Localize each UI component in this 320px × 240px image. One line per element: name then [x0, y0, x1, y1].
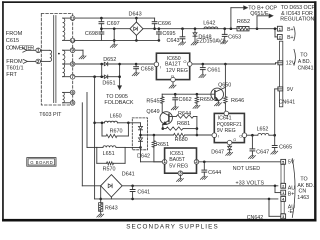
wire pin 10 rail [75, 39, 160, 42]
inductor L651 / resistor R570 loop [97, 146, 125, 173]
svg-text:SECONDARY SUPPLIES: SECONDARY SUPPLIES [126, 223, 218, 230]
svg-text:C641: C641 [137, 190, 150, 196]
connector CN642 pin 5 5V [281, 159, 295, 165]
svg-text:8: 8 [71, 61, 74, 66]
wire 9V output [247, 134, 276, 137]
svg-text:C615: C615 [6, 38, 19, 44]
svg-text:Q649: Q649 [146, 109, 159, 115]
connector pin 2 B+ [277, 35, 293, 42]
wire Q650 base feed [162, 93, 215, 96]
label TO D905 FOLDBACK [104, 94, 133, 106]
capacitor C698 [85, 29, 104, 41]
secondary winding pins 6-5 [63, 92, 71, 102]
pin 11 [70, 16, 75, 21]
input arrow from T601/1 [23, 60, 36, 64]
pin 10 [70, 38, 75, 43]
svg-text:C697: C697 [107, 21, 120, 27]
transformer primary pin 2 [36, 59, 41, 64]
wire pin 5 vertical feed [82, 103, 100, 186]
svg-text:R652: R652 [237, 19, 250, 25]
svg-text:1: 1 [163, 159, 166, 164]
svg-text:R680: R680 [175, 137, 188, 143]
capacitor C696 [152, 18, 171, 30]
svg-text:2: 2 [37, 59, 40, 64]
svg-text:G BOARD: G BOARD [30, 160, 53, 165]
svg-text:5: 5 [71, 100, 74, 105]
svg-text:R650: R650 [200, 97, 213, 103]
wire D641 bottom corner down [110, 197, 112, 199]
svg-text:IC651: IC651 [170, 151, 184, 157]
label TO A BD. CN841 [298, 53, 314, 72]
bracket for B+ pins [294, 27, 295, 41]
diode D652 [103, 57, 116, 65]
svg-text:D652: D652 [103, 57, 116, 63]
svg-text:C662: C662 [179, 97, 192, 103]
voltage regulator IC651 BA05T [162, 148, 199, 176]
capacitor C662 [171, 94, 191, 110]
svg-text:C665: C665 [279, 145, 292, 151]
wire D652 to IC650 input [108, 63, 154, 65]
resistor R643 [97, 199, 118, 217]
capacitor C653 [221, 27, 241, 43]
svg-text:D643: D643 [129, 11, 142, 17]
bracket TO A BD. [294, 49, 295, 65]
secondary winding pins 11-10 [63, 18, 71, 40]
svg-text:IC641: IC641 [218, 115, 232, 121]
svg-text:1: 1 [282, 191, 284, 195]
svg-text:I: I [218, 133, 219, 138]
svg-text:FRT: FRT [6, 72, 17, 78]
wire R644 to R680 junction [196, 117, 199, 137]
svg-text:2: 2 [282, 184, 284, 188]
wire pin 7 vertical feed [93, 77, 96, 199]
svg-text:L651: L651 [103, 151, 115, 157]
svg-text:D642: D642 [137, 153, 150, 159]
transformer T603 dashed outline [41, 14, 72, 106]
winding polarity dot [58, 53, 60, 55]
svg-text:REGULATION: REGULATION [280, 17, 314, 23]
svg-text:B+: B+ [287, 27, 294, 33]
svg-text:9V REG: 9V REG [217, 128, 236, 134]
wire 5V rail [199, 161, 281, 164]
CN641 pin 9V [278, 87, 294, 93]
diode pair D642 [132, 118, 150, 162]
capacitor C641 [130, 186, 150, 199]
svg-text:T601/1: T601/1 [6, 66, 23, 72]
svg-text:R570: R570 [103, 166, 116, 172]
svg-text:CN642: CN642 [247, 215, 264, 221]
transistor Q649 [146, 109, 176, 129]
svg-text:3: 3 [179, 171, 182, 176]
resistor R680 and 9V input wire [141, 133, 213, 143]
svg-text:R651: R651 [156, 142, 169, 148]
svg-text:Q651/E: Q651/E [250, 11, 269, 17]
title SECONDARY SUPPLIES [126, 223, 218, 230]
connector pin 1 B+ [277, 26, 293, 33]
resistor R545 [146, 94, 164, 112]
svg-text:CN: CN [299, 189, 307, 195]
svg-text:5: 5 [282, 160, 284, 164]
svg-text:L650: L650 [110, 114, 122, 120]
wire D651 junction [101, 64, 103, 77]
svg-text:3: 3 [282, 215, 284, 219]
svg-text:FROM: FROM [6, 31, 23, 37]
svg-text:T603 PIT: T603 PIT [39, 112, 62, 118]
connector CN642 pin 2 [281, 183, 295, 197]
wire pin 11 rail [75, 17, 155, 20]
svg-text:1463: 1463 [297, 195, 309, 201]
capacitor C643 [166, 27, 185, 45]
svg-text:D651: D651 [102, 80, 115, 86]
svg-text:AU: AU [288, 185, 296, 191]
svg-text:7: 7 [71, 74, 74, 79]
svg-text:PQ09RF21: PQ09RF21 [217, 122, 242, 128]
svg-text:R670: R670 [110, 128, 123, 134]
voltage regulator IC641 PQ09RF21 [212, 111, 247, 145]
svg-text:B+: B+ [287, 35, 294, 41]
svg-text:FROM: FROM [6, 59, 23, 65]
diode D651 [102, 75, 115, 86]
resistor R681 [162, 121, 197, 130]
G BOARD label box [27, 158, 56, 167]
svg-text:9: 9 [71, 48, 74, 53]
ground at pin-10 rail [110, 29, 117, 48]
svg-text:C695: C695 [162, 31, 175, 37]
svg-text:C661: C661 [207, 67, 220, 73]
bracket CN642 [292, 159, 295, 218]
svg-text:R681: R681 [177, 121, 190, 127]
transformer primary pin 1 [36, 48, 41, 53]
wire pin 6 vertical feed [87, 92, 97, 147]
svg-text:2: 2 [279, 36, 281, 40]
wire mid rail D643 to R652 [143, 28, 237, 30]
svg-text:TO: TO [300, 177, 307, 183]
wire mid rail from C697 to D643 [100, 27, 130, 30]
wire +33V rail [122, 185, 278, 188]
label FROM T601/1 FRT [6, 59, 23, 78]
svg-text:I: I [160, 64, 161, 69]
CN641 pin 12V [278, 61, 296, 67]
wire mid rail to B+ pins [249, 27, 277, 37]
connector CN642 pin 1 [275, 186, 286, 195]
svg-text:12V REG: 12V REG [166, 68, 188, 74]
transformer primary winding [41, 50, 52, 61]
label +33 VOLTS [236, 180, 265, 186]
svg-text:CN841: CN841 [298, 65, 314, 71]
svg-text:B+: B+ [288, 192, 295, 198]
diode bridge D643 [129, 11, 144, 40]
svg-text:FOLDBACK: FOLDBACK [104, 100, 133, 106]
capacitor C661 [199, 64, 221, 78]
pin 9 [70, 48, 75, 53]
svg-text:D641: D641 [122, 172, 135, 178]
label NOT USED [233, 166, 260, 172]
connector CN641 body [279, 41, 282, 107]
svg-text:TO: TO [300, 53, 307, 59]
svg-text:11: 11 [71, 17, 75, 21]
capacitor C697 [99, 18, 120, 29]
wire bottom return rail [95, 198, 278, 201]
svg-text:C647: C647 [256, 150, 269, 156]
label FROM C615 CONVERTER [6, 31, 35, 52]
svg-text:NOT USED: NOT USED [233, 166, 260, 172]
voltage regulator IC650 BA12T [154, 53, 192, 82]
wire L651 to D642 [125, 146, 142, 149]
wire D641 left corner down [99, 186, 102, 200]
connector CN642 body [281, 164, 284, 213]
svg-text:O: O [183, 59, 186, 64]
svg-text:D647: D647 [211, 149, 224, 155]
svg-text:BA12T: BA12T [165, 62, 182, 68]
svg-text:2: 2 [195, 159, 198, 164]
svg-text:1: 1 [279, 27, 281, 31]
svg-text:L652: L652 [257, 127, 269, 133]
svg-text:C643: C643 [166, 38, 179, 44]
svg-text:R646: R646 [231, 98, 244, 104]
pin 6 [70, 90, 75, 95]
wire to foldback arrow [108, 63, 122, 89]
svg-text:R643: R643 [105, 206, 118, 212]
resistor R644 [176, 111, 197, 118]
inductor L652 [257, 127, 269, 136]
connector CN642 pin 4 [281, 197, 295, 215]
svg-text:BA05T: BA05T [169, 157, 186, 163]
ground at pin 9 [75, 50, 86, 59]
svg-text:C644: C644 [208, 170, 221, 176]
resistor R650 [193, 94, 213, 108]
capacitor C644 [200, 162, 221, 180]
svg-text:Q650: Q650 [218, 82, 231, 88]
pin 8 [70, 61, 75, 66]
svg-text:5V REG: 5V REG [169, 163, 188, 169]
svg-text:10: 10 [71, 39, 75, 43]
label TO D653 OCP & IC643 FOR REGULATION [280, 5, 315, 23]
svg-text:5V: 5V [288, 160, 295, 166]
svg-text:A BD.: A BD. [298, 59, 311, 65]
ground Q650 emitter [215, 101, 222, 106]
arrow TO D653 OCP and IC643 [256, 14, 273, 30]
svg-text:C653: C653 [228, 34, 241, 40]
connector CN642 pin 3 [269, 199, 286, 219]
input arrow from C615 converter [23, 48, 36, 52]
secondary winding pins 9-8 [63, 50, 71, 64]
label TO AK BD. CN 1463 [297, 177, 314, 201]
svg-text:C696: C696 [158, 21, 171, 27]
wire 9V to CN641 [275, 89, 278, 135]
resistor R652 [237, 19, 250, 31]
inductor L650 / resistor R670 loop [95, 114, 130, 138]
label CN642 [247, 215, 264, 221]
capacitor C665 [271, 135, 292, 154]
svg-text:6: 6 [71, 90, 74, 95]
svg-text:9V: 9V [287, 87, 294, 93]
transistor Q650 [211, 82, 231, 100]
svg-text:R644: R644 [178, 111, 191, 117]
wire D642 to IC651 pin 1 [141, 161, 163, 163]
capacitor C658 [132, 63, 154, 76]
wire 12V rail [192, 63, 278, 66]
wire pin 7 to D651 [75, 75, 104, 78]
pin 7 [70, 74, 75, 79]
svg-text:CN641: CN641 [279, 99, 296, 105]
ground IC650 [169, 82, 176, 88]
secondary winding pins 8-7 [63, 64, 71, 77]
svg-text:C698: C698 [85, 31, 98, 37]
resistor R646 [224, 97, 244, 112]
svg-text:+33 VOLTS: +33 VOLTS [236, 180, 265, 186]
capacitor C695 [157, 27, 176, 40]
transformer T603 core [54, 16, 56, 103]
svg-text:G: G [171, 74, 174, 79]
svg-text:1: 1 [37, 48, 40, 53]
svg-text:C658: C658 [141, 66, 154, 72]
svg-text:L642: L642 [203, 21, 215, 27]
ground IC651 [177, 176, 184, 182]
svg-text:O: O [239, 133, 242, 138]
label CN641 [279, 99, 296, 105]
svg-text:R545: R545 [146, 99, 159, 105]
wire Q650 collector to 12V rail [224, 64, 226, 97]
arrow TO B+ OCP Q651/E [230, 5, 278, 30]
pin 5 [70, 100, 75, 105]
capacitor C647 [249, 135, 270, 158]
wire pin 8 to D652 [75, 63, 104, 66]
diode bridge D641 [101, 172, 135, 197]
wire L650 to D642 [128, 122, 140, 124]
zener diode D648 EZD150AV1 [191, 27, 225, 45]
inductor L642 [203, 21, 218, 29]
label T603 PIT [39, 112, 62, 118]
resistor R651 [152, 135, 169, 162]
svg-text:G: G [233, 138, 236, 142]
diode D647 [211, 145, 232, 156]
